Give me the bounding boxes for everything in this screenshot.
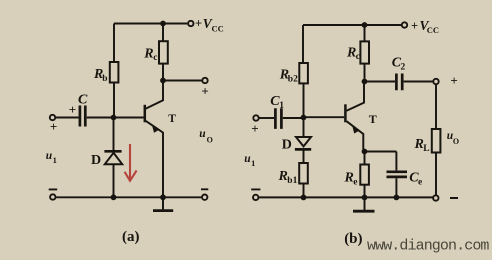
svg-text:R: R bbox=[143, 46, 153, 61]
svg-text:+: + bbox=[450, 73, 457, 88]
svg-text:e: e bbox=[418, 177, 422, 187]
svg-text:+: + bbox=[251, 121, 258, 136]
svg-text:b1: b1 bbox=[287, 176, 297, 186]
svg-text:b: b bbox=[102, 74, 107, 84]
svg-text:C: C bbox=[78, 93, 88, 108]
svg-text:T: T bbox=[168, 113, 176, 125]
svg-text:2: 2 bbox=[401, 62, 406, 72]
svg-text:O: O bbox=[207, 136, 213, 145]
svg-text:+: + bbox=[195, 17, 202, 31]
svg-text:www.diangon.com: www.diangon.com bbox=[367, 238, 489, 255]
svg-text:+: + bbox=[411, 19, 418, 33]
svg-text:CC: CC bbox=[212, 23, 224, 33]
svg-text:u: u bbox=[199, 128, 206, 140]
svg-text:c: c bbox=[356, 52, 360, 62]
svg-text:b2: b2 bbox=[288, 75, 298, 85]
svg-text:1: 1 bbox=[251, 158, 255, 168]
svg-text:1: 1 bbox=[53, 155, 57, 165]
svg-text:c: c bbox=[153, 53, 157, 63]
svg-text:T: T bbox=[369, 112, 377, 126]
svg-text:+: + bbox=[50, 119, 57, 134]
svg-text:L: L bbox=[423, 144, 429, 154]
svg-text:R: R bbox=[278, 169, 288, 184]
svg-text:R: R bbox=[344, 170, 354, 185]
svg-text:1: 1 bbox=[279, 101, 284, 111]
svg-text:CC: CC bbox=[427, 25, 439, 35]
svg-text:+: + bbox=[201, 84, 208, 99]
svg-text:+: + bbox=[69, 102, 76, 117]
svg-text:(a): (a) bbox=[122, 229, 140, 245]
svg-text:(b): (b) bbox=[344, 231, 362, 247]
svg-text:e: e bbox=[353, 177, 357, 187]
svg-text:R: R bbox=[414, 137, 424, 152]
svg-text:O: O bbox=[453, 137, 459, 146]
svg-text:D: D bbox=[282, 138, 292, 153]
svg-text:D: D bbox=[91, 153, 101, 168]
